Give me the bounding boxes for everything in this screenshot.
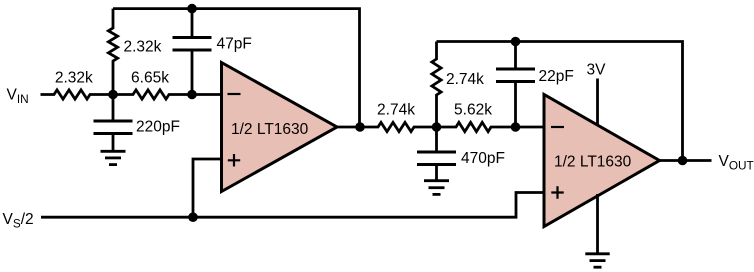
resistor R3 2.32k (feedback, vertical) with leads from rail to node A	[108, 9, 117, 95]
wire node B to U1 inverting input	[192, 93, 222, 96]
U2 plus sign	[551, 186, 563, 199]
U2 minus sign	[551, 126, 564, 128]
capacitor C2 220pF (input node to ground)	[94, 95, 133, 152]
U1 minus sign	[228, 93, 241, 95]
svg-text:47pF: 47pF	[217, 36, 252, 53]
wire VS/2 node to U1 non-inverting input	[193, 159, 222, 217]
node junction dot on VS/2 bus	[188, 212, 198, 222]
node U1 output junction dot	[355, 122, 365, 132]
wire top rail 1 from R3 top to U1 output column	[113, 9, 360, 127]
ground G1 (below 220pF)	[101, 151, 126, 164]
resistor R4 2.74k (horizontal) with leads	[360, 122, 437, 131]
wire U2 output to VOUT	[660, 159, 712, 162]
svg-text:2.74k: 2.74k	[446, 71, 484, 88]
op-amp U1 (1/2 LT1630)	[222, 63, 338, 192]
svg-text:VIN: VIN	[7, 87, 29, 106]
svg-text:2.32k: 2.32k	[124, 39, 162, 56]
op-amp U2 (1/2 LT1630)	[544, 95, 660, 227]
U1 plus sign	[228, 154, 240, 167]
capacitor C1 47pF (feedback)	[173, 9, 212, 95]
wire VS/2 bus to U2 non-inverting input	[41, 193, 544, 218]
resistor R5 2.74k (feedback, vertical) from rail 2 to node C	[432, 42, 441, 128]
node C junction dot (stage 2 RC node)	[432, 122, 442, 132]
svg-text:VOUT: VOUT	[719, 153, 754, 172]
node output junction dot	[678, 156, 688, 166]
ground G3 (U2 supply)	[585, 254, 609, 267]
wire node D to U2 inverting input	[516, 126, 545, 129]
svg-text:470pF: 470pF	[461, 150, 505, 167]
svg-text:2.32k: 2.32k	[55, 70, 93, 87]
ground G2 (below 470pF)	[424, 181, 449, 195]
wire top rail 2 from R5 top to U2 output column	[437, 42, 683, 161]
node A junction dot (input RC node)	[108, 90, 118, 100]
svg-text:5.62k: 5.62k	[454, 102, 492, 119]
svg-text:2.74k: 2.74k	[377, 102, 415, 119]
capacitor C3 22pF (feedback)	[496, 42, 535, 128]
node junction dot on rail 1 (47pF top)	[187, 4, 197, 14]
resistor R6 5.62k (horizontal) between node C and node D	[437, 122, 516, 131]
svg-text:1/2 LT1630: 1/2 LT1630	[231, 121, 309, 138]
svg-text:6.65k: 6.65k	[131, 70, 169, 87]
node B junction dot (U1 inverting input node)	[187, 90, 197, 100]
svg-text:3V: 3V	[587, 62, 607, 79]
svg-text:1/2 LT1630: 1/2 LT1630	[554, 154, 632, 171]
capacitor C4 470pF (node C to ground)	[417, 127, 456, 181]
resistor R2 6.65k (horizontal) between node A and node B	[113, 90, 192, 99]
node D junction dot (U2 inverting input node)	[511, 122, 521, 132]
resistor R1 2.32k (input, horizontal) with lead wires	[41, 90, 114, 99]
svg-text:22pF: 22pF	[539, 68, 574, 85]
svg-text:220pF: 220pF	[136, 119, 180, 136]
wire U2 negative supply to ground	[596, 194, 599, 254]
wire U1 output to node	[337, 126, 360, 129]
svg-text:VS/2: VS/2	[3, 211, 34, 230]
node junction dot on rail 2 (22pF top)	[511, 37, 521, 47]
wire 3V supply to U2 top edge	[596, 79, 599, 127]
